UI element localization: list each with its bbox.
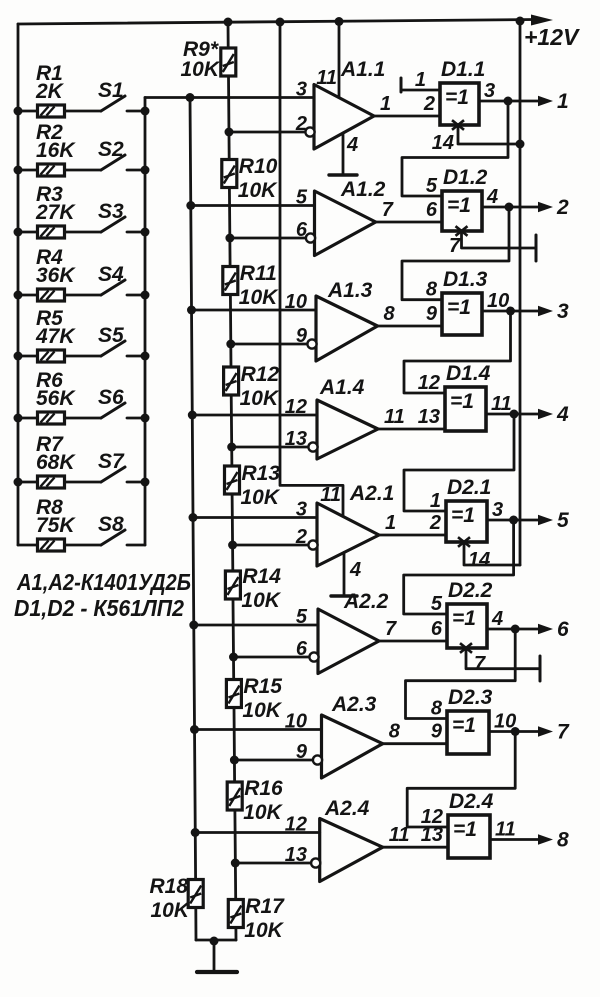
op-amp A2.4 bbox=[320, 819, 383, 882]
label D2.3 output pin 10 bbox=[494, 711, 516, 733]
label D1.4 bbox=[446, 362, 491, 385]
label A2.2 pin 5 bbox=[296, 606, 308, 628]
resistor R3 bbox=[38, 226, 65, 238]
wire cascade D1.1 out to D1.2 pin 5 bbox=[402, 101, 508, 196]
label D2.1 pin 2 bbox=[429, 512, 441, 534]
svg-text:10K: 10K bbox=[239, 286, 279, 309]
svg-text:5: 5 bbox=[426, 175, 438, 197]
svg-text:1: 1 bbox=[415, 69, 426, 91]
node output 6 cascade junction bbox=[511, 625, 520, 634]
svg-text:A2.3: A2.3 bbox=[331, 693, 377, 716]
svg-text:D1,D2 - К561ЛП2: D1,D2 - К561ЛП2 bbox=[14, 595, 184, 621]
wire A2.1 output to D2.1 pin 2 bbox=[379, 534, 446, 537]
wire R6 left lead bbox=[18, 417, 38, 420]
label S8 bbox=[98, 513, 124, 536]
node left bus / R2 bbox=[14, 166, 23, 175]
resistor R15 bbox=[226, 680, 241, 708]
node left bus / R3 bbox=[14, 228, 23, 237]
node switch bus / S3 bbox=[141, 228, 150, 237]
svg-text:R13: R13 bbox=[242, 462, 281, 485]
XOR gate D2.3 bbox=[447, 711, 489, 754]
label D1.3 pin 8 bbox=[426, 279, 438, 301]
svg-text:7: 7 bbox=[382, 199, 394, 221]
resistor R1 bbox=[38, 105, 65, 117]
wire cascade D2.1 out to D2.2 pin 5 bbox=[404, 520, 514, 614]
label A1.2 output pin 7 bbox=[382, 199, 394, 221]
label R2 value 16K bbox=[36, 139, 76, 162]
node + bus tap bbox=[190, 725, 199, 734]
label A1.3 output pin 8 bbox=[384, 303, 396, 325]
wire R5 left lead bbox=[18, 355, 38, 358]
label +12V bbox=[524, 24, 580, 50]
XOR gate D1.1 bbox=[440, 83, 479, 125]
svg-text:10K: 10K bbox=[150, 899, 190, 922]
wire divider chain segment bbox=[229, 294, 232, 368]
wire bottom ground rail bbox=[196, 939, 236, 942]
label D1.2 pin 7 bbox=[449, 235, 461, 257]
D2.1 pin 14 mark bbox=[458, 537, 470, 547]
wire D2.2 output 6 bbox=[487, 628, 540, 631]
resistor R4 bbox=[38, 289, 65, 301]
label S7 bbox=[98, 450, 125, 473]
wire R7 to S7 bbox=[65, 481, 102, 484]
node output 7 cascade junction bbox=[511, 727, 520, 736]
label D1.3 symbol =1 bbox=[447, 296, 471, 319]
label D2.4 symbol =1 bbox=[453, 818, 477, 841]
node + bus tap bbox=[188, 411, 197, 420]
label D1.1 symbol =1 bbox=[445, 86, 469, 109]
label R16 bbox=[244, 777, 283, 800]
svg-text:13: 13 bbox=[285, 844, 307, 866]
label R10 value 10K bbox=[238, 179, 278, 202]
wire + bus to A1.4 pin 12 bbox=[192, 414, 317, 417]
svg-text:10K: 10K bbox=[244, 919, 284, 942]
svg-text:1: 1 bbox=[557, 90, 569, 113]
op-amp A2.3 bbox=[322, 715, 383, 778]
node top rail / A2 supply drop bbox=[276, 18, 285, 27]
resistor R5 bbox=[38, 350, 65, 362]
svg-text:A2.2: A2.2 bbox=[343, 590, 389, 613]
wire D1.4 output 4 bbox=[486, 413, 540, 416]
D2.2 pin 7 terminal bar bbox=[539, 656, 542, 681]
node divider tap 8 bbox=[231, 859, 240, 868]
wire A1.3 output to D1.3 pin 9 bbox=[378, 325, 443, 328]
D1.2 pin 7 mark bbox=[456, 226, 468, 236]
wire D2.2 pin 7 to common bbox=[466, 650, 540, 669]
svg-text:56K: 56K bbox=[36, 387, 76, 410]
label R11 value 10K bbox=[239, 286, 279, 309]
resistor R16 bbox=[227, 782, 242, 810]
label D2.4 output pin 11 bbox=[495, 819, 516, 841]
svg-text:3: 3 bbox=[296, 499, 307, 521]
node divider tap 1 bbox=[225, 128, 234, 137]
label D1.1 pin 14 bbox=[432, 132, 454, 154]
svg-text:36K: 36K bbox=[36, 264, 76, 287]
node divider tap 3 bbox=[226, 340, 235, 349]
+12V arrow bbox=[531, 15, 553, 26]
svg-text:=1: =1 bbox=[452, 714, 476, 737]
wire cascade D1.4 out to D2.1 pin 1 bbox=[404, 414, 514, 511]
label A2.3 pin 9 bbox=[296, 741, 308, 763]
svg-text:10K: 10K bbox=[180, 58, 220, 81]
A2.3 inverting input circle bbox=[313, 755, 322, 764]
op-amp A2.2 bbox=[318, 609, 379, 674]
svg-text:D2.4: D2.4 bbox=[449, 790, 494, 813]
svg-text:9: 9 bbox=[296, 741, 308, 763]
svg-text:9: 9 bbox=[426, 303, 438, 325]
wire divider chain segment bbox=[234, 927, 237, 940]
wire D2.1 output 5 bbox=[487, 519, 540, 522]
svg-text:D1.1: D1.1 bbox=[441, 58, 485, 81]
svg-text:R12: R12 bbox=[241, 363, 280, 386]
svg-text:10K: 10K bbox=[238, 179, 278, 202]
svg-text:3: 3 bbox=[557, 300, 569, 323]
svg-text:=1: =1 bbox=[452, 607, 476, 630]
resistor R7 bbox=[38, 476, 65, 488]
label output 1 bbox=[557, 90, 569, 113]
label D1.2 symbol =1 bbox=[447, 194, 471, 217]
svg-text:R16: R16 bbox=[244, 777, 283, 800]
wire D1.1 pin 1 stub bbox=[401, 89, 440, 92]
wire divider tap to A1.4 pin 13 bbox=[232, 446, 309, 449]
svg-text:10K: 10K bbox=[243, 801, 283, 824]
wire divider chain segment bbox=[232, 600, 235, 680]
svg-text:2K: 2K bbox=[35, 80, 65, 103]
label A2.1 pin 11 bbox=[320, 484, 341, 506]
node divider tap 7 bbox=[230, 756, 239, 765]
node top rail / right +12V bus bbox=[516, 17, 525, 26]
output arrow 6 bbox=[538, 624, 553, 634]
svg-text:4: 4 bbox=[486, 186, 498, 208]
node switch bus / S2 bbox=[141, 166, 150, 175]
label output 8 bbox=[557, 829, 569, 852]
label R11 bbox=[240, 262, 277, 285]
svg-text:1: 1 bbox=[385, 512, 396, 534]
label R7 bbox=[36, 433, 64, 456]
svg-text:2: 2 bbox=[556, 196, 569, 219]
svg-text:7: 7 bbox=[385, 618, 397, 640]
label D2.4 pin 13 bbox=[421, 824, 443, 846]
svg-text:12: 12 bbox=[418, 372, 440, 394]
label R14 bbox=[242, 565, 281, 588]
D1.1 pin 14 mark bbox=[452, 120, 464, 130]
svg-text:2: 2 bbox=[429, 512, 441, 534]
label R4 bbox=[36, 246, 63, 269]
label A1.4 pin 12 bbox=[285, 396, 307, 418]
node switch bus / S5 bbox=[141, 352, 150, 361]
label D2.1 symbol =1 bbox=[451, 504, 475, 527]
label A1.1 bbox=[340, 58, 385, 81]
svg-text:D2.1: D2.1 bbox=[447, 476, 491, 499]
resistor R11 bbox=[223, 267, 238, 295]
svg-text:11: 11 bbox=[316, 67, 337, 89]
svg-text:4: 4 bbox=[556, 403, 569, 426]
node pin3 wire / + bus bbox=[186, 93, 195, 102]
wire D1.3 output 3 bbox=[482, 310, 540, 313]
switch S5 bbox=[101, 341, 145, 356]
label D1.4 symbol =1 bbox=[450, 390, 474, 413]
label R12 bbox=[241, 363, 280, 386]
label A2.2 output pin 7 bbox=[385, 618, 397, 640]
svg-text:S3: S3 bbox=[98, 200, 124, 223]
switch S8 bbox=[101, 530, 145, 545]
wire divider chain segment bbox=[233, 810, 237, 900]
label A2.2 bbox=[343, 590, 389, 613]
node output 1 cascade junction bbox=[504, 97, 513, 106]
svg-text:2: 2 bbox=[295, 526, 307, 548]
resistor R17 bbox=[228, 900, 243, 928]
wire D1.1 pin 14 to +12V bus bbox=[458, 127, 520, 144]
wire R2 left lead bbox=[18, 169, 38, 172]
label A2.1 pin 2 bbox=[295, 526, 307, 548]
svg-text:13: 13 bbox=[418, 406, 440, 428]
svg-text:10: 10 bbox=[285, 711, 307, 733]
svg-text:13: 13 bbox=[285, 428, 307, 450]
node left bus / R7 bbox=[14, 478, 23, 487]
svg-text:D1.2: D1.2 bbox=[443, 166, 488, 189]
label D2.1 bbox=[447, 476, 491, 499]
label D1.1 bbox=[441, 58, 485, 81]
label D1.3 pin 9 bbox=[426, 303, 438, 325]
label R8 bbox=[36, 496, 63, 519]
wire R5 to S5 bbox=[65, 355, 102, 358]
resistor R12 bbox=[224, 367, 239, 395]
label D2.3 pin 9 bbox=[431, 721, 443, 743]
label A1.2 pin 6 bbox=[296, 219, 308, 241]
label A1.3 bbox=[327, 279, 373, 302]
switch S1 bbox=[101, 96, 145, 111]
wire D2.1 pin 14 to +12V bus bbox=[464, 544, 520, 565]
svg-text:11: 11 bbox=[495, 819, 516, 841]
label D1.4 output pin 11 bbox=[491, 393, 512, 415]
svg-text:7: 7 bbox=[557, 721, 570, 744]
wire A1.1 pin 4 stub bbox=[342, 133, 345, 175]
svg-text:R18: R18 bbox=[149, 875, 188, 898]
switch S3 bbox=[101, 217, 145, 232]
label output 4 bbox=[556, 403, 569, 426]
svg-text:68K: 68K bbox=[36, 451, 76, 474]
wire + bus to A2.4 pin 12 bbox=[195, 831, 320, 834]
label R6 bbox=[36, 369, 63, 392]
svg-text:8: 8 bbox=[431, 698, 443, 720]
node divider tap 6 bbox=[229, 653, 238, 662]
svg-text:8: 8 bbox=[389, 721, 401, 743]
label R5 bbox=[36, 307, 63, 330]
svg-text:D2.2: D2.2 bbox=[448, 579, 493, 602]
node switch bus / S1 bbox=[141, 107, 150, 116]
svg-text:A1.2: A1.2 bbox=[340, 178, 386, 201]
switch S4 bbox=[101, 280, 145, 295]
wire A1.4 output to D1.4 pin 13 bbox=[378, 428, 445, 431]
svg-text:5: 5 bbox=[296, 187, 308, 209]
label D2.1 pin 1 bbox=[430, 490, 441, 512]
label R6 value 56K bbox=[36, 387, 76, 410]
wire + bus to A2.1 pin 3 bbox=[193, 516, 317, 519]
D2.2 pin 7 mark bbox=[460, 643, 472, 653]
svg-text:4: 4 bbox=[349, 559, 361, 581]
svg-text:=1: =1 bbox=[453, 818, 477, 841]
node left bus / R1 bbox=[14, 107, 23, 116]
XOR gate D1.3 bbox=[442, 293, 482, 335]
svg-text:A2.1: A2.1 bbox=[349, 482, 394, 505]
A2.2 inverting input circle bbox=[309, 652, 318, 661]
label A1.4 bbox=[319, 376, 365, 399]
svg-text:2: 2 bbox=[295, 113, 307, 135]
resistor R13 bbox=[225, 466, 240, 494]
svg-text:8: 8 bbox=[384, 303, 396, 325]
output arrow 5 bbox=[538, 515, 553, 525]
svg-text:6: 6 bbox=[426, 199, 438, 221]
svg-text:10: 10 bbox=[487, 290, 509, 312]
wire divider tap to A1.3 pin 9 bbox=[231, 343, 308, 346]
wire +12V top rail bbox=[18, 20, 536, 25]
resistor R9* bbox=[221, 48, 236, 76]
node left bus / R4 bbox=[14, 291, 23, 300]
label D1.3 bbox=[443, 268, 488, 291]
wire A2.2 output to D2.2 pin 6 bbox=[379, 640, 447, 643]
svg-text:4: 4 bbox=[491, 608, 503, 630]
label D1.2 pin 6 bbox=[426, 199, 438, 221]
svg-text:A1.3: A1.3 bbox=[327, 279, 373, 302]
label A1.2 pin 5 bbox=[296, 187, 308, 209]
label R9* bbox=[183, 38, 219, 61]
svg-text:6: 6 bbox=[557, 618, 569, 641]
A1.3 inverting input circle bbox=[307, 339, 316, 348]
A1.1 inverting input circle bbox=[305, 127, 314, 136]
node + bus tap bbox=[189, 513, 198, 522]
label R12 value 10K bbox=[240, 387, 280, 410]
label R17 value 10K bbox=[244, 919, 284, 942]
wire R4 to S4 bbox=[65, 294, 102, 297]
D1.1 pin 1 terminal tick bbox=[400, 78, 403, 92]
label D2.1 output pin 3 bbox=[492, 499, 503, 521]
svg-text:2: 2 bbox=[423, 93, 435, 115]
label A2.4 output pin 11 bbox=[389, 824, 410, 846]
op-amp A2.1 bbox=[317, 503, 379, 566]
A2.1 inverting input circle bbox=[308, 540, 317, 549]
svg-text:3: 3 bbox=[484, 80, 495, 102]
svg-text:6: 6 bbox=[296, 219, 308, 241]
label R5 value 47K bbox=[35, 325, 76, 348]
svg-text:R14: R14 bbox=[242, 565, 281, 588]
resistor R14 bbox=[225, 571, 240, 599]
svg-text:=1: =1 bbox=[450, 390, 474, 413]
XOR gate D1.4 bbox=[445, 387, 486, 431]
label R18 value 10K bbox=[150, 899, 190, 922]
label A2.3 pin 10 bbox=[285, 711, 307, 733]
svg-text:12: 12 bbox=[285, 396, 307, 418]
label R18 bbox=[149, 875, 188, 898]
label A2.4 pin 12 bbox=[285, 814, 307, 836]
wire R8 to S8 bbox=[65, 544, 102, 547]
label D1.2 output pin 4 bbox=[486, 186, 498, 208]
wire A1.2 output to D1.2 pin 6 bbox=[376, 221, 442, 224]
label D1.1 pin 2 bbox=[423, 93, 435, 115]
A1.1 pin 4 supply bar bbox=[329, 173, 357, 176]
svg-text:1: 1 bbox=[380, 93, 391, 115]
svg-text:8: 8 bbox=[426, 279, 438, 301]
label D1.2 pin 5 bbox=[426, 175, 438, 197]
ground bbox=[197, 941, 237, 972]
label D2.2 pin 6 bbox=[431, 618, 443, 640]
resistor R18 bbox=[188, 880, 203, 908]
label R9* value 10K bbox=[180, 58, 220, 81]
svg-text:D1.4: D1.4 bbox=[446, 362, 491, 385]
node output 4 cascade junction bbox=[510, 410, 519, 419]
label S1 bbox=[98, 79, 124, 102]
svg-text:7: 7 bbox=[474, 653, 486, 675]
label output 3 bbox=[557, 300, 569, 323]
svg-text:=1: =1 bbox=[447, 194, 471, 217]
wire + bus to A2.2 pin 5 bbox=[194, 624, 318, 627]
wire divider chain segment bbox=[228, 187, 232, 267]
svg-text:S4: S4 bbox=[98, 263, 124, 286]
label R1 value 2K bbox=[35, 80, 65, 103]
XOR gate D2.4 bbox=[448, 815, 490, 858]
resistor R6 bbox=[38, 412, 65, 424]
node top rail / A1.1 pin 11 bbox=[335, 17, 344, 26]
label S2 bbox=[98, 138, 124, 161]
label R3 value 27K bbox=[35, 201, 76, 224]
label A2.4 bbox=[324, 797, 370, 820]
svg-text:S5: S5 bbox=[98, 324, 124, 347]
node left bus / R5 bbox=[14, 352, 23, 361]
label D2.2 bbox=[448, 579, 493, 602]
wire D2.4 output 8 bbox=[490, 838, 540, 841]
svg-text:13: 13 bbox=[421, 824, 443, 846]
node + bus tap bbox=[187, 306, 196, 315]
svg-text:14: 14 bbox=[432, 132, 454, 154]
wire cascade D2.3 out to D2.4 pin 12 bbox=[407, 732, 515, 828]
wire right +12V bus bbox=[519, 21, 522, 565]
label D2.2 pin 5 bbox=[431, 593, 443, 615]
node output 3 cascade junction bbox=[506, 307, 515, 316]
wire R1 left lead bbox=[18, 110, 38, 113]
wire A2.4 output to D2.4 pin 13 bbox=[383, 846, 448, 849]
svg-text:S1: S1 bbox=[98, 79, 124, 102]
label A2.3 bbox=[331, 693, 377, 716]
wire R3 to S3 bbox=[65, 231, 102, 234]
label D2.3 bbox=[448, 686, 493, 709]
op-amp A1.1 bbox=[314, 85, 374, 150]
svg-text:A2.4: A2.4 bbox=[324, 797, 370, 820]
svg-text:3: 3 bbox=[296, 79, 307, 101]
label R3 bbox=[36, 183, 63, 206]
node + bus tap bbox=[189, 621, 198, 630]
wire R4 left lead bbox=[18, 294, 38, 297]
svg-text:9: 9 bbox=[296, 325, 308, 347]
svg-text:14: 14 bbox=[468, 549, 490, 571]
svg-text:S8: S8 bbox=[98, 513, 124, 536]
svg-text:1: 1 bbox=[430, 490, 441, 512]
label D1.4 pin 12 bbox=[418, 372, 440, 394]
label D2.4 bbox=[449, 790, 494, 813]
op-amp A1.3 bbox=[316, 296, 378, 361]
label A1.2 bbox=[340, 178, 386, 201]
label D2.2 symbol =1 bbox=[452, 607, 476, 630]
wire + bus to A2.3 pin 10 bbox=[195, 728, 322, 731]
wire divider chain segment bbox=[231, 493, 234, 570]
svg-text:=1: =1 bbox=[445, 86, 469, 109]
label D2.1 pin 14 bbox=[468, 549, 490, 571]
label S5 bbox=[98, 324, 124, 347]
svg-text:A1.1: A1.1 bbox=[340, 58, 385, 81]
op-amp A1.2 bbox=[315, 191, 376, 256]
wire switch common bus bbox=[144, 98, 147, 546]
label R15 value 10K bbox=[242, 699, 282, 722]
switch S2 bbox=[101, 155, 145, 170]
wire R1 to S1 bbox=[65, 110, 102, 113]
